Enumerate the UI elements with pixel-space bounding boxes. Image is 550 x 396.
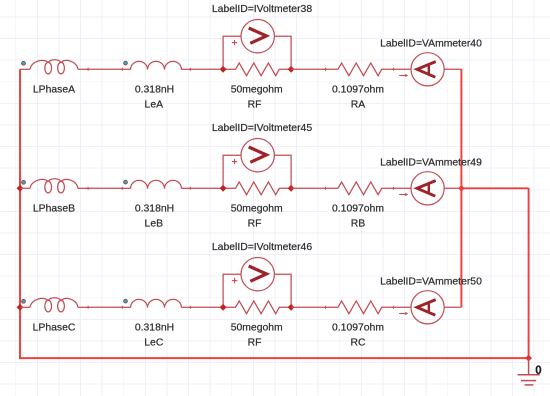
- wire: voltmeter left branch: [223, 155, 241, 188]
- ammeter VAmmeter50: [394, 291, 462, 324]
- svg-text:LeA: LeA: [145, 99, 164, 110]
- wire: RF node to RB: [291, 187, 325, 189]
- inductor LeA 0.318nH: [122, 61, 190, 69]
- pin marker: LeC left pin: [121, 306, 124, 309]
- terminal dot: LPhaseB positive pin: [22, 180, 26, 184]
- wire: RF node to RC: [291, 306, 325, 308]
- pin marker: LPhaseC right pin: [87, 306, 90, 309]
- terminal dot: LeA positive pin: [124, 61, 128, 65]
- wire: LPhaseB to LeB: [88, 187, 122, 189]
- junction: left bus / phase B input: [17, 185, 24, 192]
- resistor RC 0.1097ohm: [326, 301, 394, 314]
- svg-text:LabelID=IVoltmeter38: LabelID=IVoltmeter38: [212, 4, 312, 15]
- svg-text:RF: RF: [248, 218, 262, 229]
- pin marker: LeA right pin: [189, 68, 192, 71]
- svg-text:LabelID=VAmmeter49: LabelID=VAmmeter49: [380, 157, 482, 168]
- svg-text:LPhaseC: LPhaseC: [33, 322, 76, 333]
- svg-text:0.1097ohm: 0.1097ohm: [332, 322, 384, 333]
- terminal dot: LPhaseC positive pin: [22, 299, 26, 303]
- pin marker: RB left pin: [324, 187, 327, 190]
- svg-text:50megohm: 50megohm: [231, 84, 283, 95]
- polarity plus: voltmeter: [232, 159, 237, 164]
- resistor RB 0.1097ohm: [326, 182, 394, 195]
- wire: LPhaseA to LeA: [88, 68, 122, 70]
- wire: phase B output to ground drop: [461, 187, 528, 189]
- svg-text:0: 0: [535, 365, 541, 377]
- svg-text:0.318nH: 0.318nH: [135, 322, 174, 333]
- inductor LeB 0.318nH: [122, 180, 190, 188]
- junction: RF left node: [220, 66, 227, 73]
- wire: right vertical bus joining ammeter outputs: [460, 69, 462, 307]
- svg-text:RF: RF: [248, 99, 262, 110]
- wire: voltmeter right branch: [274, 274, 291, 307]
- junction: RF left node: [220, 185, 227, 192]
- wire: LeA to RF node: [190, 68, 223, 70]
- ammeter VAmmeter40: [394, 53, 462, 86]
- inductor LeC 0.318nH: [122, 299, 190, 307]
- wire: voltmeter right branch: [274, 155, 291, 188]
- wire: LeC to RF node: [190, 306, 223, 308]
- junction: ground node: [525, 355, 532, 362]
- svg-text:LabelID=VAmmeter40: LabelID=VAmmeter40: [380, 38, 482, 49]
- resistor RF (phase C) 50megohm: [223, 301, 291, 314]
- resistor RF (phase A) 50megohm: [223, 63, 291, 76]
- current direction arrow: [399, 74, 408, 77]
- pin marker: RC right pin / ammeter input: [392, 306, 395, 309]
- svg-text:LeC: LeC: [144, 337, 164, 348]
- junction: left bus / phase C input: [17, 304, 24, 311]
- wire: voltmeter left branch: [223, 36, 241, 69]
- wire: LPhaseC to LeC: [88, 306, 122, 308]
- resistor RF (phase B) 50megohm: [223, 182, 291, 195]
- voltmeter IVoltmeter45: [241, 139, 274, 172]
- svg-text:LabelID=IVoltmeter45: LabelID=IVoltmeter45: [212, 123, 312, 134]
- svg-text:LabelID=IVoltmeter46: LabelID=IVoltmeter46: [212, 242, 312, 253]
- voltmeter IVoltmeter46: [241, 258, 274, 291]
- svg-text:0.318nH: 0.318nH: [135, 203, 174, 214]
- inductor LPhaseB: [20, 179, 88, 193]
- pin marker: LPhaseB right pin: [87, 187, 90, 190]
- svg-text:0.318nH: 0.318nH: [135, 84, 174, 95]
- resistor RA 0.1097ohm: [326, 63, 394, 76]
- svg-text:RC: RC: [350, 337, 366, 348]
- pin marker: LeB right pin: [189, 187, 192, 190]
- pin marker: RB right pin / ammeter input: [392, 187, 395, 190]
- wire: right ground drop: [528, 188, 530, 358]
- junction: RF left node: [220, 304, 227, 311]
- wire: bottom return to ground: [19, 357, 529, 359]
- current direction arrow: [399, 312, 408, 315]
- svg-text:50megohm: 50megohm: [231, 322, 283, 333]
- pin marker: LeC right pin: [189, 306, 192, 309]
- inductor LPhaseA: [20, 60, 88, 74]
- svg-text:LPhaseB: LPhaseB: [33, 203, 75, 214]
- wire: left vertical bus (phase inputs to ground return): [19, 69, 21, 358]
- current direction arrow: [399, 193, 408, 196]
- polarity plus: voltmeter: [232, 278, 237, 283]
- wire: voltmeter right branch: [274, 36, 291, 69]
- svg-text:LabelID=VAmmeter50: LabelID=VAmmeter50: [380, 276, 482, 287]
- inductor LPhaseC: [20, 298, 88, 312]
- svg-text:0.1097ohm: 0.1097ohm: [332, 203, 384, 214]
- svg-text:LPhaseA: LPhaseA: [33, 84, 75, 95]
- svg-text:LeB: LeB: [145, 218, 164, 229]
- junction: RF right node: [288, 304, 295, 311]
- svg-text:RB: RB: [351, 218, 366, 229]
- svg-text:0.1097ohm: 0.1097ohm: [332, 84, 384, 95]
- ammeter VAmmeter49: [394, 172, 462, 205]
- junction: ammeter B output / right bus: [458, 185, 465, 192]
- pin marker: RA left pin: [324, 68, 327, 71]
- wire: LeB to RF node: [190, 187, 223, 189]
- pin marker: LeB left pin: [121, 187, 124, 190]
- ground: [518, 358, 540, 385]
- junction: RF right node: [288, 185, 295, 192]
- pin marker: RC left pin: [324, 306, 327, 309]
- terminal dot: LPhaseA positive pin: [22, 61, 26, 65]
- svg-text:RA: RA: [351, 99, 366, 110]
- polarity plus: voltmeter: [232, 40, 237, 45]
- svg-text:RF: RF: [248, 337, 262, 348]
- wire: voltmeter left branch: [223, 274, 241, 307]
- terminal dot: LeC positive pin: [124, 299, 128, 303]
- junction: RF right node: [288, 66, 295, 73]
- wire: RF node to RA: [291, 68, 325, 70]
- terminal dot: LeB positive pin: [124, 180, 128, 184]
- pin marker: LeA left pin: [121, 68, 124, 71]
- pin marker: LPhaseA right pin: [87, 68, 90, 71]
- voltmeter IVoltmeter38: [241, 20, 274, 53]
- svg-text:50megohm: 50megohm: [231, 203, 283, 214]
- pin marker: RA right pin / ammeter input: [392, 68, 395, 71]
